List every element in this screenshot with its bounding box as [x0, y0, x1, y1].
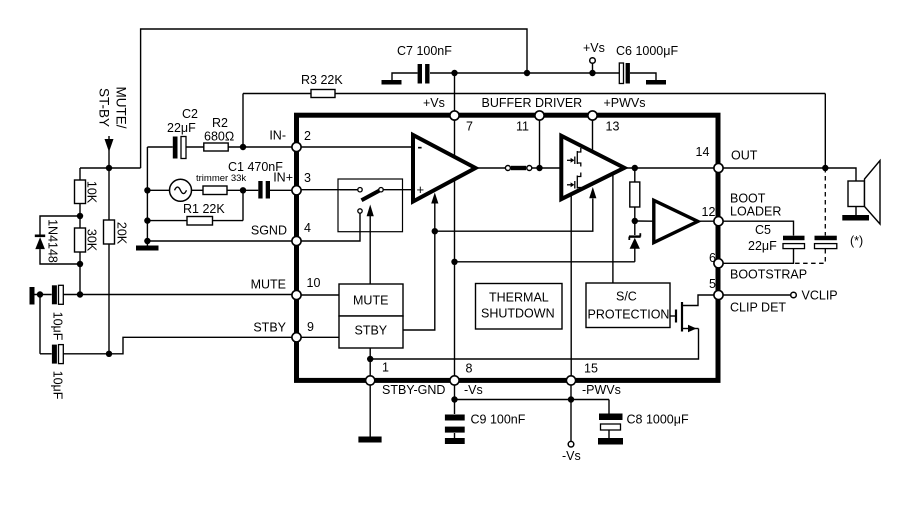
IC main box	[297, 115, 719, 380]
wire pin9 to STBY box	[297, 336, 340, 338]
svg-text:10K: 10K	[85, 181, 99, 204]
svg-text:MUTE: MUTE	[353, 294, 388, 308]
svg-text:9: 9	[307, 320, 314, 334]
wire +Vs terminal stub	[592, 63, 594, 73]
capacitor C1 470nF	[228, 160, 283, 199]
svg-text:LOADER: LOADER	[730, 205, 781, 219]
capacitor C6 1000uF	[616, 44, 678, 84]
wire dashed optional cap from OUT	[824, 168, 826, 236]
wire mosfet gate	[667, 315, 675, 317]
svg-text:8: 8	[466, 362, 473, 376]
svg-text:30K: 30K	[85, 229, 99, 252]
svg-text:R3 22K: R3 22K	[301, 73, 343, 87]
svg-text:14: 14	[696, 145, 710, 159]
svg-text:C6 1000μF: C6 1000μF	[616, 44, 678, 58]
svg-text:2: 2	[304, 129, 311, 143]
pin number labels	[304, 120, 716, 376]
svg-text:C8 1000μF: C8 1000μF	[627, 413, 689, 427]
speaker	[842, 161, 880, 225]
bottom labels	[382, 383, 621, 397]
mosfet glyph upper	[567, 148, 581, 167]
wire R3 feedback right vertical	[824, 94, 826, 169]
svg-text:+: +	[417, 182, 425, 197]
capacitor C8 1000uF	[599, 413, 689, 431]
wire pin1 to ground	[369, 380, 371, 437]
svg-text:SGND: SGND	[251, 224, 287, 238]
wire ground run y=359	[370, 329, 698, 360]
switch box	[338, 179, 403, 232]
pin circles	[292, 111, 723, 385]
wire C9 stub	[454, 433, 456, 438]
box S/C PROTECTION	[586, 283, 670, 328]
svg-text:680Ω: 680Ω	[204, 130, 234, 144]
ground bar C8	[598, 438, 623, 445]
svg-text:22μF: 22μF	[167, 121, 196, 135]
svg-text:12: 12	[702, 205, 716, 219]
wire pin3 to switch	[297, 189, 359, 191]
svg-text:10μF: 10μF	[51, 312, 65, 341]
wire R3 feedback top run	[243, 93, 311, 95]
wire IN- row	[147, 146, 172, 148]
mute arrow into switch	[367, 205, 374, 217]
right labels	[730, 149, 807, 315]
wire pin10 to MUTE box	[297, 294, 340, 296]
svg-text:-Vs: -Vs	[464, 383, 483, 397]
ground bar pin1	[358, 437, 381, 443]
svg-text:IN+: IN+	[273, 171, 293, 185]
wire -Vs inner branch to zener	[455, 261, 635, 263]
svg-text:R2: R2	[212, 116, 228, 130]
diode D1 1N4148	[35, 216, 80, 264]
svg-text:20K: 20K	[115, 222, 129, 245]
svg-text:1N4148: 1N4148	[46, 219, 60, 263]
mosfet glyph lower	[567, 173, 581, 192]
svg-text:C2: C2	[182, 107, 198, 121]
capacitor C2 22uF	[167, 107, 198, 159]
resistor 10K	[75, 168, 99, 216]
svg-text:S/C: S/C	[616, 290, 637, 304]
svg-text:+PWVs: +PWVs	[604, 96, 646, 110]
wire SGND row	[147, 240, 296, 242]
transistor clip-detect mosfet	[676, 302, 697, 332]
ground bar C9	[445, 438, 465, 444]
wire input ground vertical	[146, 147, 148, 241]
svg-text:22μF: 22μF	[748, 239, 777, 253]
wire pin7/pin8 vertical -Vs/+Vs column	[454, 73, 456, 380]
wire stby-gnd vertical	[369, 348, 371, 380]
terminal VCLIP	[791, 289, 838, 303]
wire zener bottom	[634, 249, 636, 262]
svg-text:10μF: 10μF	[51, 371, 65, 400]
terminal -Vs bottom	[562, 441, 581, 463]
svg-text:3: 3	[304, 171, 311, 185]
wire stby branch to power stage	[435, 199, 593, 232]
wire pin8 down	[454, 380, 456, 414]
box STBY	[339, 316, 403, 348]
svg-text:11: 11	[516, 120, 529, 134]
wire dashed optional cap to pin6 net	[794, 249, 826, 263]
svg-text:C7 100nF: C7 100nF	[397, 44, 452, 58]
wire OUT row inside	[624, 167, 718, 169]
wire buffer out to pin12	[698, 220, 719, 222]
wire buffer input	[635, 220, 654, 222]
wire MUTE/ST-BY node horizontal	[80, 167, 141, 169]
stby arrow into power stage	[589, 187, 596, 198]
svg-text:STBY: STBY	[355, 324, 388, 338]
svg-text:BOOTSTRAP: BOOTSTRAP	[730, 268, 807, 282]
wire zener top	[634, 221, 636, 235]
svg-text:-Vs: -Vs	[562, 449, 581, 463]
resistor R2 680	[204, 116, 234, 151]
svg-text:VCLIP: VCLIP	[802, 289, 838, 303]
wire +Vs rail y=73	[392, 73, 418, 80]
top labels	[423, 96, 646, 110]
wire pin11 vertical	[539, 116, 541, 169]
power stage U2	[561, 136, 624, 199]
svg-text:5: 5	[709, 277, 716, 291]
resistor 30K	[75, 216, 99, 295]
wire pin12 to C5	[719, 221, 794, 235]
ground bar C7	[382, 80, 402, 85]
resistor R1 22K	[183, 202, 225, 225]
svg-text:STBY: STBY	[253, 321, 286, 335]
svg-text:15: 15	[584, 362, 598, 376]
ground bar input caps	[30, 287, 52, 305]
svg-text:trimmer 33k: trimmer 33k	[196, 173, 246, 184]
svg-text:C9 100nF: C9 100nF	[471, 413, 526, 427]
ground bar C6	[646, 80, 666, 85]
wire C5 to pin6	[719, 249, 794, 263]
resistor trimmer 33k	[196, 173, 246, 195]
resistor 20K	[104, 168, 129, 354]
wire pin2 to opamp inside	[297, 146, 414, 148]
wire R1 row	[147, 220, 187, 222]
resistor R3 22K	[301, 73, 343, 98]
svg-text:7: 7	[466, 120, 473, 134]
svg-text:10: 10	[307, 276, 321, 290]
svg-text:BUFFER DRIVER: BUFFER DRIVER	[482, 96, 583, 110]
resistor out branch	[630, 182, 640, 207]
wire mosfet source	[683, 328, 699, 330]
wire top-left loop from MUTE/ST-BY node to +Vs rail	[141, 29, 527, 168]
svg-text:4: 4	[304, 221, 311, 235]
svg-text:-PWVs: -PWVs	[582, 383, 621, 397]
wire C8 drop	[608, 400, 610, 414]
terminal +Vs top	[583, 41, 605, 63]
svg-text:1: 1	[382, 361, 389, 375]
wire SGND inside to switch	[297, 213, 361, 241]
svg-text:-: -	[418, 139, 423, 155]
capacitor C9 100nF	[445, 413, 526, 433]
wire IN+ row	[147, 189, 169, 191]
wire pin15 vertical	[570, 194, 572, 380]
zener diode	[629, 233, 641, 249]
capacitor C5 22uF	[748, 223, 805, 253]
svg-text:13: 13	[606, 120, 620, 134]
svg-text:STBY-GND: STBY-GND	[382, 383, 445, 397]
stby arrow into op-amp U1	[431, 193, 438, 204]
wire mute control vertical	[369, 216, 371, 284]
svg-text:C5: C5	[755, 223, 771, 237]
svg-text:+Vs: +Vs	[583, 41, 605, 55]
left pin name labels	[251, 129, 293, 335]
svg-text:THERMAL: THERMAL	[489, 291, 549, 305]
svg-text:PROTECTION: PROTECTION	[588, 308, 670, 322]
svg-text:SHUTDOWN: SHUTDOWN	[481, 307, 555, 321]
wire OUT to speaker	[719, 168, 857, 181]
wire mosfet drain	[683, 295, 719, 306]
ground bar SGND	[136, 246, 159, 251]
svg-text:+Vs: +Vs	[423, 96, 445, 110]
wire switch to opamp	[383, 189, 413, 191]
AC source	[170, 179, 192, 201]
svg-text:IN-: IN-	[269, 129, 286, 143]
svg-text:CLIP DET: CLIP DET	[730, 301, 786, 315]
wire out branch resistor	[634, 168, 636, 182]
svg-text:BOOT: BOOT	[730, 192, 766, 206]
wire R3 feedback left vertical	[242, 94, 244, 148]
svg-text:R1 22K: R1 22K	[183, 202, 225, 216]
box THERMAL SHUTDOWN	[476, 284, 563, 330]
svg-text:OUT: OUT	[731, 149, 758, 163]
box MUTE	[339, 284, 403, 316]
wire -Vs bottom run	[455, 399, 610, 401]
svg-text:6: 6	[709, 251, 716, 265]
svg-text:(*): (*)	[850, 234, 863, 248]
wire S/C sense vertical	[612, 174, 614, 284]
wire pin5 to VCLIP	[719, 294, 791, 296]
capacitor C7 100nF	[397, 44, 452, 84]
op-amp U1	[413, 135, 476, 202]
wire stby control	[403, 203, 435, 330]
capacitor 10uF (stby)	[40, 295, 297, 400]
capacitor optional (*)	[815, 234, 864, 249]
node MUTE/ST-BY input arrow	[97, 87, 129, 169]
buffer amp U3	[654, 200, 698, 242]
capacitor 10uF (mute)	[51, 285, 297, 340]
jumper link buffer driver	[505, 166, 531, 171]
svg-text:MUTE: MUTE	[251, 278, 286, 292]
wire pin13 vertical	[592, 116, 594, 153]
wire opamp1 output row	[476, 167, 506, 169]
wire C8 stub	[608, 431, 610, 439]
wire pin15 down	[570, 380, 572, 441]
